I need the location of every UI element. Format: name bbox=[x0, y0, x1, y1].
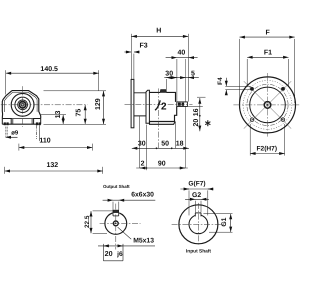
dims 2 / 90 bbox=[136, 125, 188, 171]
key (dark) and keyway slot bbox=[113, 210, 119, 213]
outer flange circle bbox=[240, 77, 296, 133]
svg-text:75: 75 bbox=[76, 109, 83, 117]
svg-text:G(F7): G(F7) bbox=[188, 181, 205, 188]
dim 20 j6 bbox=[98, 244, 155, 261]
keyway white notch bbox=[113, 212, 120, 216]
input view center lines bbox=[172, 203, 226, 246]
body foot bbox=[150, 122, 176, 125]
notch white-out bbox=[196, 213, 201, 216]
dim G2 bbox=[185, 199, 209, 212]
dotted circle bbox=[243, 81, 292, 130]
bolt circle (dash-dot) bbox=[247, 84, 288, 125]
svg-text:129: 129 bbox=[95, 98, 102, 110]
oil plug cap on top bbox=[160, 90, 166, 93]
right side dims 16 / 20 / * bbox=[188, 97, 206, 131]
gear body bbox=[149, 92, 176, 121]
dims 30 50 18 (bottom of side view) bbox=[132, 116, 189, 168]
M5x13 leader and label bbox=[118, 227, 132, 239]
dim F3 bbox=[124, 52, 139, 79]
svg-text:18: 18 bbox=[176, 140, 184, 147]
dim F4 bbox=[225, 78, 251, 94]
output boss concentric circles bbox=[11, 93, 34, 116]
svg-text:50: 50 bbox=[161, 140, 169, 147]
svg-text:20: 20 bbox=[193, 119, 200, 127]
bolt holes bbox=[250, 87, 254, 91]
dim F2(H7) bbox=[250, 124, 284, 156]
svg-text:6x6x30: 6x6x30 bbox=[131, 192, 154, 199]
input shaft keyway box bbox=[177, 102, 188, 107]
svg-text:110: 110 bbox=[39, 137, 50, 144]
dim H bbox=[131, 34, 188, 102]
label l2 bbox=[155, 100, 160, 110]
bore circle bbox=[189, 215, 208, 234]
foot hole hidden lines + leader ø9 bbox=[6, 125, 40, 141]
side view center lines bbox=[125, 88, 193, 148]
dim F bbox=[240, 37, 295, 103]
flange diagonals / center lines bbox=[233, 73, 299, 137]
dim 40 bbox=[166, 58, 198, 102]
hub between flange and body bbox=[134, 93, 146, 116]
bottom line between feet bbox=[11, 119, 33, 125]
dim 140.5 bbox=[6, 70, 99, 94]
svg-text:G2: G2 bbox=[192, 192, 201, 199]
center lines of front view bbox=[1, 86, 88, 127]
keyway notch bbox=[195, 213, 201, 217]
dim 132 bbox=[5, 167, 103, 174]
svg-text:Output Shaft: Output Shaft bbox=[103, 184, 130, 189]
motor flange plate bbox=[131, 79, 187, 127]
svg-text:2: 2 bbox=[161, 102, 167, 113]
intermediate plate bbox=[146, 90, 149, 123]
svg-text:F2(H7): F2(H7) bbox=[257, 145, 278, 152]
keyway dark cells bbox=[178, 103, 184, 106]
dim 75 bbox=[84, 105, 86, 124]
dim G(F7) bbox=[180, 189, 213, 215]
dim 110 bbox=[19, 144, 93, 151]
svg-text:ø9: ø9 bbox=[11, 130, 19, 137]
svg-text:H: H bbox=[156, 27, 161, 34]
gearbox housing outline bbox=[2, 91, 40, 119]
svg-text:20: 20 bbox=[105, 249, 113, 258]
svg-text:13: 13 bbox=[55, 111, 62, 119]
housing inner offset line bbox=[4, 92, 37, 112]
svg-text:132: 132 bbox=[46, 162, 58, 169]
dim F1 bbox=[247, 57, 288, 87]
svg-text:2: 2 bbox=[141, 161, 145, 168]
dim 22.5 bbox=[91, 211, 113, 234]
svg-text:G1: G1 bbox=[221, 217, 228, 226]
svg-text:30: 30 bbox=[165, 71, 173, 78]
key dim 6x6x30 bbox=[103, 200, 156, 210]
center tapped hole M5 bbox=[113, 221, 118, 226]
svg-text:30: 30 bbox=[138, 140, 146, 147]
svg-text:j6: j6 bbox=[116, 251, 123, 258]
svg-text:22.5: 22.5 bbox=[84, 215, 91, 228]
outer circle bbox=[179, 205, 218, 244]
svg-text:90: 90 bbox=[158, 161, 166, 168]
output view center lines bbox=[100, 204, 141, 250]
shaft circle bbox=[105, 213, 127, 235]
svg-text:F3: F3 bbox=[140, 43, 148, 50]
svg-text:140.5: 140.5 bbox=[40, 66, 58, 73]
dim 129 bbox=[44, 91, 107, 125]
svg-text:Input Shaft: Input Shaft bbox=[186, 249, 211, 255]
svg-text:F: F bbox=[265, 29, 270, 36]
right foot bbox=[34, 118, 41, 124]
spigot circle bbox=[250, 87, 286, 123]
hub ring bbox=[264, 102, 271, 109]
dim G1 bbox=[203, 214, 232, 233]
svg-text:F4: F4 bbox=[217, 77, 224, 85]
svg-text:40: 40 bbox=[178, 50, 186, 57]
svg-text:16: 16 bbox=[193, 108, 200, 116]
left foot bbox=[2, 118, 11, 124]
foot pads (dark) bbox=[4, 122, 41, 125]
dim 30 and 5 (top) bbox=[164, 59, 199, 168]
baseline of feet bbox=[2, 123, 40, 125]
svg-text:5: 5 bbox=[191, 71, 195, 78]
svg-text:M5x13: M5x13 bbox=[133, 238, 154, 245]
svg-text:F1: F1 bbox=[264, 49, 272, 56]
dim 13 bbox=[41, 115, 66, 125]
